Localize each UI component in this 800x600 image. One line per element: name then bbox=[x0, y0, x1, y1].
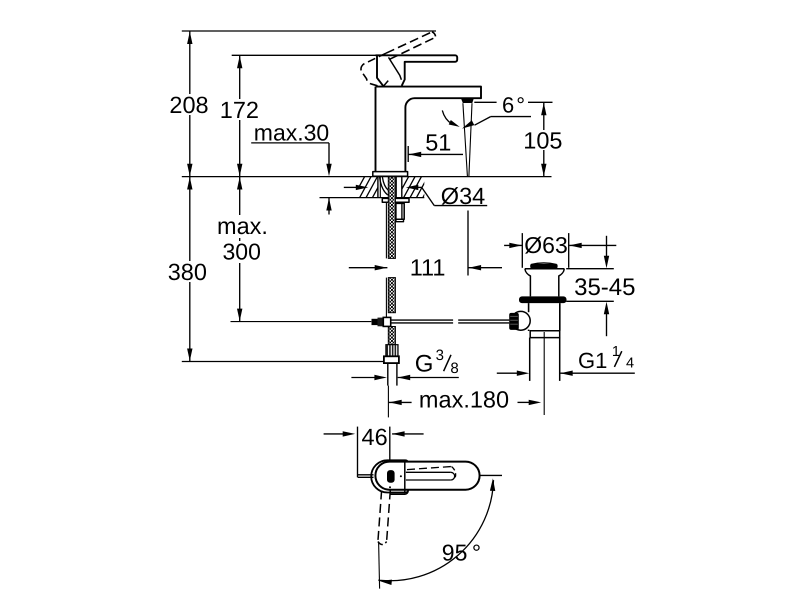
braided hose segment 3 bbox=[388, 327, 395, 345]
lever slot end cap bbox=[451, 472, 455, 480]
ribbed hose adapter bbox=[386, 345, 398, 357]
G1-1/4 dim line left bbox=[497, 372, 518, 374]
svg-text:G1: G1 bbox=[578, 348, 607, 373]
rod clamp dark block bbox=[378, 318, 384, 327]
drain flange left profile bbox=[525, 269, 531, 297]
extension line lever top bbox=[232, 54, 376, 56]
dimension 105 line bbox=[543, 102, 545, 176]
G3/8 arrow left bbox=[398, 375, 411, 380]
dimension 51 line bbox=[408, 153, 463, 155]
shank tube right wall bbox=[395, 177, 397, 198]
lever dashed hidden line bbox=[407, 467, 452, 470]
faucet base plate bbox=[373, 172, 408, 177]
G3/8 arrow right bbox=[374, 375, 387, 380]
rod housing boss bbox=[511, 311, 530, 330]
G3/8 dimension line right bbox=[398, 377, 459, 379]
faucet tailpipe right wall bbox=[396, 363, 398, 386]
dimension 380 line bbox=[189, 177, 191, 362]
G1-1/4 arrow right bbox=[517, 371, 530, 376]
svg-text:46: 46 bbox=[362, 424, 388, 450]
dimension 208 line bbox=[189, 31, 191, 177]
svg-text:380: 380 bbox=[168, 259, 207, 285]
svg-text:208: 208 bbox=[169, 92, 208, 118]
max180 arrow left bbox=[389, 400, 402, 405]
dimension 172 arrow down bbox=[237, 164, 242, 177]
pop-up rod right part bottom bbox=[458, 322, 509, 324]
top view aerator (dark) bbox=[387, 470, 395, 483]
braided hose segment 1 (through deck) bbox=[388, 177, 395, 259]
stream swivel arc arrow bbox=[449, 120, 460, 127]
dimension 380 arrow down bbox=[187, 349, 192, 362]
svg-text:95°: 95° bbox=[442, 540, 481, 566]
35-45 lower extension line bbox=[566, 300, 614, 302]
extension line hose end (380 bottom) bbox=[182, 361, 389, 363]
top view base plate corner bbox=[390, 491, 408, 494]
dimension 111 line right bbox=[468, 267, 502, 269]
drain center rod / centerline bbox=[543, 332, 545, 415]
washer under deck bbox=[382, 198, 409, 202]
max180 arrow right bbox=[529, 400, 542, 405]
top view body joint line bbox=[404, 460, 406, 493]
raised lever dashed top line bbox=[386, 32, 432, 53]
6 deg leader diagonal bbox=[475, 117, 491, 126]
drain tailpipe left wall bbox=[529, 338, 531, 381]
top view small dot right bbox=[400, 475, 402, 477]
faucet body outline bbox=[376, 87, 482, 172]
dimension 105 arrow up bbox=[541, 103, 546, 116]
dimension max.300 arrow up bbox=[237, 177, 242, 190]
top view small dot below bbox=[389, 486, 391, 488]
svg-text:Ø34: Ø34 bbox=[441, 183, 485, 209]
handle body left edge bbox=[377, 55, 383, 86]
svg-text:51: 51 bbox=[425, 129, 451, 155]
pop-up rod knurled knob bbox=[509, 313, 519, 330]
dimension 208 arrow up bbox=[187, 32, 192, 45]
hose curve in shank left bbox=[380, 177, 388, 195]
svg-text:300: 300 bbox=[223, 239, 261, 265]
deck top surface line bbox=[182, 176, 552, 178]
dia34 leader diagonal bbox=[422, 187, 435, 205]
svg-text:max.180: max.180 bbox=[419, 387, 509, 413]
top view lever capsule outline bbox=[375, 462, 479, 490]
zero reference line bbox=[480, 474, 502, 476]
drain body left wall upper bbox=[528, 303, 530, 312]
lever handle solid outline bbox=[376, 55, 458, 86]
raised lever dashed bottom line bbox=[390, 37, 436, 59]
svg-text:3: 3 bbox=[436, 347, 444, 364]
dimension 172 arrow up bbox=[237, 56, 242, 69]
drain body right wall bbox=[559, 303, 561, 331]
G3/8 dimension line left bbox=[351, 377, 375, 379]
braided hose segment 2 bbox=[388, 278, 395, 313]
drain flange top edge bbox=[525, 268, 564, 270]
label G 3/8 bbox=[415, 347, 459, 378]
stream swivel arc bbox=[442, 110, 452, 124]
drain tailpipe right wall bbox=[559, 338, 561, 381]
horizontal pop-up rod top line bbox=[391, 319, 453, 321]
svg-text:111: 111 bbox=[410, 255, 446, 281]
dimension 111 arrow left bbox=[469, 265, 482, 270]
dia63 arrow left bbox=[569, 243, 582, 248]
max.30 leader vertical bbox=[328, 143, 330, 166]
svg-text:8: 8 bbox=[450, 360, 458, 377]
mounting nut lip bbox=[396, 219, 404, 221]
svg-text:4: 4 bbox=[626, 355, 634, 371]
95 arc arrow left bbox=[379, 580, 392, 585]
handle body notch bbox=[383, 81, 388, 87]
dimension 380 arrow up bbox=[187, 177, 192, 190]
shank tube left wall bbox=[379, 177, 381, 198]
dia63 dim line left bbox=[504, 244, 522, 246]
label G1 1/4 bbox=[578, 344, 634, 373]
mounting nut bbox=[396, 203, 404, 219]
35-45 upper leader bbox=[606, 236, 608, 257]
mounting hole left edge bbox=[377, 177, 379, 198]
max.30 arrow up to deck bottom bbox=[326, 198, 331, 211]
35-45 arrow up bbox=[604, 302, 609, 315]
dimension 46 line left bbox=[324, 433, 344, 435]
top view collar outline bbox=[371, 460, 408, 492]
aerator outlet (filled) bbox=[461, 98, 474, 103]
top view spout tab bbox=[358, 475, 374, 478]
extension line top of raised lever bbox=[182, 30, 436, 32]
svg-text:G: G bbox=[415, 351, 434, 378]
dimension 208 arrow down bbox=[187, 164, 192, 177]
rotated lever dashed end cap bbox=[378, 542, 387, 545]
svg-text:Ø63: Ø63 bbox=[524, 232, 567, 258]
dimension 105 arrow down bbox=[541, 164, 546, 177]
dia63 right extension line bbox=[568, 233, 570, 268]
6 deg reference line left bbox=[474, 101, 496, 103]
dia63 dim line right bbox=[569, 244, 616, 246]
dimension 111 line left bbox=[349, 267, 388, 269]
dimension 46 arrow right bbox=[343, 431, 356, 436]
svg-text:35-45: 35-45 bbox=[574, 274, 635, 301]
dia34 underline bbox=[434, 205, 487, 207]
6 deg reference line right bbox=[528, 101, 553, 103]
dia34 right arrow bbox=[406, 185, 419, 190]
faucet column left edge bbox=[375, 87, 377, 172]
dimension 46 line right bbox=[392, 433, 424, 435]
hose connector nut bbox=[384, 356, 399, 363]
51 extension line bbox=[407, 146, 409, 162]
svg-text:max.: max. bbox=[217, 213, 268, 239]
max180 line left bbox=[389, 401, 412, 403]
drain cap dark band bbox=[530, 264, 557, 268]
pop-up rod right part top bbox=[458, 319, 509, 321]
raised lever dashed end cap bbox=[432, 32, 436, 37]
111 extension line (stream axis) bbox=[467, 211, 469, 276]
35-45 lower leader bbox=[606, 313, 608, 336]
35-45 upper extension line bbox=[566, 268, 614, 270]
svg-text:105: 105 bbox=[523, 127, 562, 153]
rod end cylinder bbox=[372, 319, 378, 325]
rotated lever extension line bbox=[379, 542, 380, 589]
G1-1/4 dim line right bbox=[560, 372, 635, 374]
deck hatching left of shank bbox=[353, 175, 424, 199]
raised handle body dashed outline bbox=[361, 53, 386, 86]
lever slot lines bbox=[406, 472, 451, 480]
G3/8 fraction slash bbox=[444, 355, 451, 371]
svg-text:6°: 6° bbox=[502, 93, 525, 118]
lever dashed end arc bbox=[452, 467, 456, 478]
rotated lever dashed right line bbox=[387, 491, 391, 542]
max.30 lower leader tail bbox=[328, 198, 330, 215]
horizontal pop-up rod bottom line bbox=[391, 322, 453, 324]
mounting hole right edge bbox=[401, 177, 403, 198]
95 arc arrow up bbox=[490, 478, 495, 491]
dia63 arrow right bbox=[509, 243, 522, 248]
46 left extension line bbox=[357, 427, 359, 478]
water stream left line bbox=[463, 103, 468, 176]
deck hatching right of shank bbox=[397, 175, 468, 199]
dimension 172 line bbox=[239, 55, 241, 176]
second supply hose line upper bbox=[385, 202, 387, 258]
drain ribbed coupling ring bbox=[530, 331, 560, 338]
6 deg leader arrow bbox=[462, 120, 474, 128]
max180 line right bbox=[518, 401, 530, 403]
95 degree arc bbox=[378, 480, 493, 581]
svg-text:max.30: max.30 bbox=[254, 120, 329, 146]
handle body inner edge bbox=[389, 57, 402, 79]
water stream right line bbox=[469, 103, 472, 176]
deck bottom surface line bbox=[320, 197, 425, 199]
dia34 left arrow bbox=[356, 185, 369, 190]
mounting nut inner line bbox=[401, 203, 403, 219]
35-45 arrow down bbox=[604, 256, 609, 269]
max300 bottom extension / rod line bbox=[231, 321, 372, 323]
drain body left wall lower bbox=[528, 330, 530, 331]
6 deg underline bbox=[491, 116, 531, 118]
G1-1/4 fraction slash bbox=[614, 351, 621, 367]
rod clamp block at hose bbox=[383, 317, 390, 326]
dia34 left leader line bbox=[344, 186, 357, 188]
dimension max.300 arrow down bbox=[237, 309, 242, 322]
max.30 arrow down to deck top bbox=[326, 164, 331, 177]
46 right extension line bbox=[389, 427, 391, 461]
hose curve in shank right bbox=[382, 177, 388, 191]
dimension 46 arrow left bbox=[392, 431, 405, 436]
dimension 111 arrow right bbox=[375, 265, 388, 270]
faucet tailpipe left wall bbox=[387, 363, 389, 386]
dia63 left extension line bbox=[521, 233, 523, 268]
drain cap top arc bbox=[531, 263, 557, 265]
drain flange right profile bbox=[559, 269, 565, 297]
G1-1/4 arrow left bbox=[560, 371, 573, 376]
dimension max.300 line bbox=[239, 177, 241, 322]
rotated lever dashed left line bbox=[378, 491, 382, 542]
second supply hose line lower bbox=[385, 278, 387, 318]
tailpipe extension line bbox=[387, 386, 389, 418]
drain seal ring (black) bbox=[519, 296, 567, 303]
dia34 right leader bbox=[418, 186, 422, 188]
dimension 51 arrow left bbox=[409, 152, 422, 157]
max.30 underline leader bbox=[251, 142, 329, 144]
